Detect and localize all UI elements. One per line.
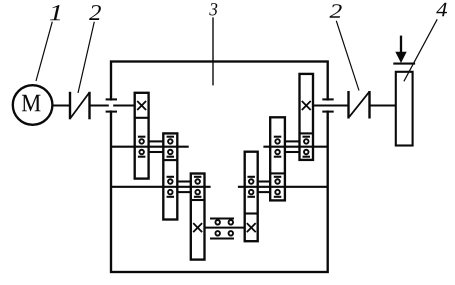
- shaft II (right): [263, 146, 327, 148]
- gear symbols in A' at shaft II level: [303, 136, 311, 138]
- shaft: coupling to ram: [370, 104, 396, 106]
- divider in C': [245, 212, 258, 214]
- leader line to motor: [36, 22, 52, 81]
- output shaft: A' to right wall to coupling: [313, 104, 349, 106]
- divider in B: [163, 159, 177, 161]
- shaft II (left): [111, 146, 189, 148]
- ram (element 4) body: [396, 72, 413, 146]
- gearbox housing (element 3): [111, 62, 328, 273]
- shaft I: motor to coupling: [52, 104, 70, 106]
- coupling 2 left: half-coupling bars: [69, 92, 71, 120]
- mesh connectors A-B: [149, 140, 164, 142]
- gear block A' (output shaft): [300, 74, 314, 160]
- coupling 2 left: diagonal: [71, 93, 90, 118]
- gear block C' (shaft IV right): [245, 152, 258, 242]
- shaft III (right): [238, 186, 328, 188]
- gear symbols in B at shaft II level: [167, 136, 175, 138]
- force arrow head: [395, 52, 406, 63]
- label 4 (ram): [436, 3, 447, 16]
- gear symbols in B' at shaft III level: [274, 176, 282, 178]
- leader line to gearbox housing: [212, 17, 214, 85]
- coupling 2 right: half-coupling bars: [347, 91, 349, 119]
- elastic coupling plates: [210, 217, 234, 219]
- gear symbols in B at shaft III level: [167, 176, 175, 178]
- label 2 (left coupling): [89, 5, 101, 20]
- gear block B' (shaft II right): [270, 117, 285, 200]
- fixed gear cross in A': [302, 101, 311, 110]
- left wall bearing caps: [106, 98, 117, 100]
- divider in A: [135, 117, 149, 119]
- force arrow shaft: [400, 36, 402, 53]
- divider in B': [270, 172, 285, 174]
- gear symbols in B' at shaft II level: [274, 136, 282, 138]
- divider in A': [300, 132, 314, 134]
- gear block C (shaft III): [191, 174, 205, 260]
- fixed gear cross in A: [137, 101, 146, 110]
- label 3 (gearbox): [209, 3, 217, 15]
- shaft IV (bottom): [205, 227, 246, 229]
- shaft III (left): [111, 186, 211, 188]
- shaft I: coupling to gearbox input: [90, 104, 135, 106]
- left wall bearing gap: [109, 101, 113, 111]
- gear symbols in C at shaft III level: [194, 176, 202, 178]
- coupling 2 right: diagonal: [349, 92, 369, 117]
- label 1: [50, 5, 60, 20]
- mesh connectors B'-A': [285, 140, 300, 142]
- right wall bearing caps: [322, 98, 333, 100]
- divider in C: [191, 199, 205, 201]
- fixed gear cross in C': [247, 223, 256, 232]
- gear block A (input shaft): [135, 93, 149, 179]
- leader line to ram: [404, 19, 437, 81]
- gear block B (shaft II): [163, 133, 177, 219]
- label 2 (right coupling): [330, 4, 342, 18]
- leader line to right coupling: [336, 21, 359, 91]
- gear symbols in A at shaft II level: [138, 136, 146, 138]
- gear symbols in C' at shaft III level: [247, 176, 255, 178]
- right wall bearing gap: [326, 101, 330, 111]
- elastic coupling rollers: [215, 220, 220, 225]
- motor M (element 1): [13, 85, 53, 125]
- mesh connectors B-C: [177, 180, 191, 182]
- leader line to left coupling: [78, 22, 94, 93]
- ram top platen: [393, 63, 415, 65]
- fixed gear cross in C: [193, 223, 202, 232]
- mesh connectors C'-B': [258, 180, 271, 182]
